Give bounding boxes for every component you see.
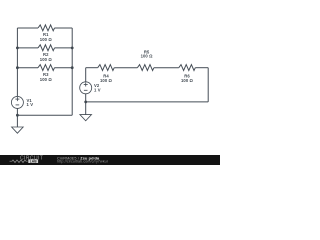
ground below V1 (12, 115, 24, 133)
junction at V1 bottom node (16, 114, 19, 117)
wire bottom of left loop (17, 114, 72, 116)
svg-text:LAB: LAB (30, 159, 37, 163)
wire V2 bottom stem (85, 94, 87, 102)
resistor R2 (38, 45, 55, 51)
svg-text:1 V: 1 V (94, 87, 101, 92)
junction on right rail at R3 row (71, 66, 74, 69)
wire right rail of right loop (207, 68, 209, 102)
svg-text:100 Ω: 100 Ω (40, 77, 53, 82)
junction on left rail at R2 row (16, 47, 19, 50)
wire V1 bottom stem (16, 108, 18, 115)
wire R2 row left lead (17, 47, 38, 49)
CircuitLab logo: resistor zigzag (10, 160, 28, 163)
resistor R5 (137, 65, 154, 71)
wire top-left segment of left loop (17, 27, 38, 29)
wire right rail of left loop (71, 28, 73, 115)
resistor R4 (98, 65, 115, 71)
wire R5 to R6 (154, 67, 179, 69)
svg-text:http://circuitlab.com/c/ry7wku: http://circuitlab.com/c/ry7wkur (57, 160, 109, 164)
svg-text:100 Ω: 100 Ω (181, 78, 194, 83)
voltage source V1 (11, 96, 23, 108)
voltage source V2 (80, 82, 92, 94)
wire left rail of left loop (16, 28, 18, 97)
svg-text:100 Ω: 100 Ω (40, 57, 53, 62)
resistor R1 (38, 25, 55, 31)
svg-text:100 Ω: 100 Ω (40, 37, 53, 42)
wire R3 row left lead (17, 67, 38, 69)
wire R3 row right lead (55, 67, 73, 69)
junction on right rail at R2 row (71, 47, 74, 50)
junction on left rail at R3 row (16, 66, 19, 69)
svg-text:1 V: 1 V (27, 102, 34, 107)
wire R6 to right rail (195, 67, 208, 69)
wire V2 to R4 (86, 67, 98, 69)
resistor R6 (179, 65, 196, 71)
wire R2 row right lead (55, 47, 73, 49)
wire R4 to R5 (114, 67, 137, 69)
wire top-right segment of left loop (55, 27, 73, 29)
junction at V2 bottom node (84, 101, 87, 104)
CircuitLab logo: LAB badge (28, 159, 38, 163)
ground below V2 (80, 102, 92, 121)
wire V2 top stem (85, 68, 87, 82)
svg-text:100 Ω: 100 Ω (141, 53, 154, 58)
svg-text:100 Ω: 100 Ω (100, 78, 113, 83)
footer black bar (0, 155, 220, 165)
resistor R3 (38, 65, 55, 71)
wire bottom of right loop (86, 101, 209, 103)
